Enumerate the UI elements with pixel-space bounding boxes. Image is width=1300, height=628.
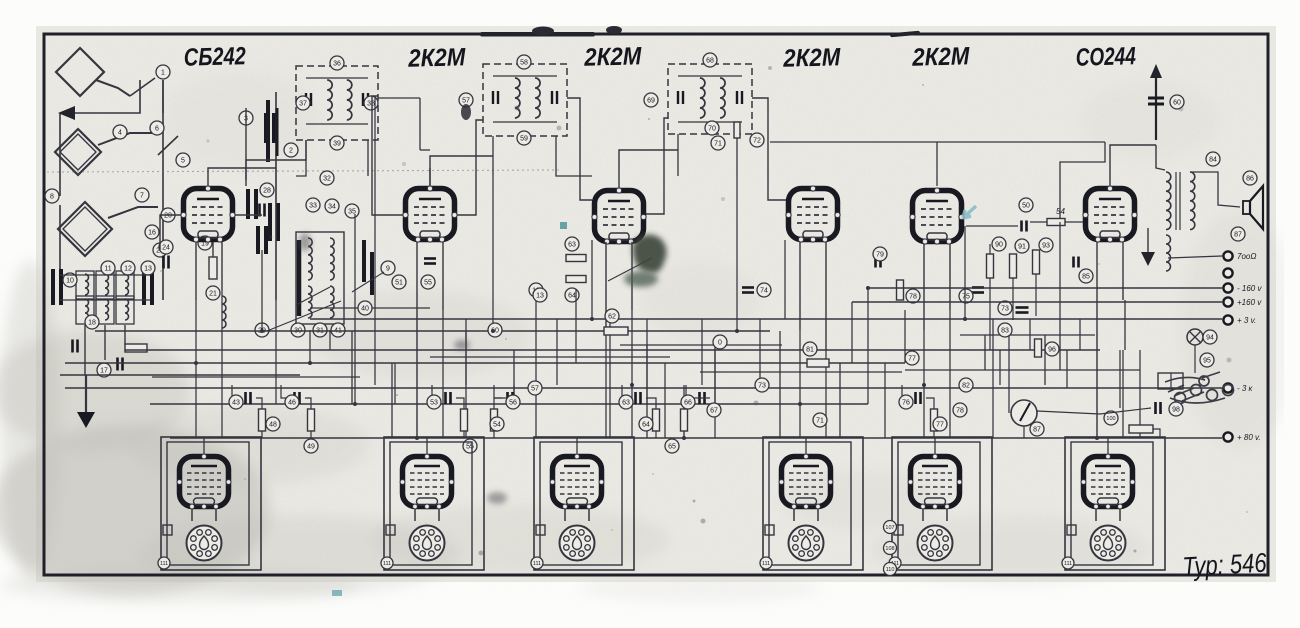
designator row 64 [639, 417, 653, 431]
resistor under tube1 [209, 257, 217, 279]
padder cap b [144, 269, 152, 305]
designator row 53 [427, 395, 441, 409]
ground arrow main [77, 412, 95, 428]
wire V5 tube-socket left [922, 509, 924, 521]
bottom unit V1 outer wiring rect [161, 437, 261, 570]
bottom tube envelope V2 [400, 454, 454, 509]
designator row 54 [490, 417, 504, 431]
designator row 49 [304, 439, 318, 453]
designator 57 [459, 93, 473, 107]
designator 7 [135, 188, 149, 202]
wire T1 right drop [367, 140, 369, 176]
designator 12 [121, 261, 135, 275]
svg-text:93: 93 [1042, 243, 1050, 250]
wire tube1 cath [212, 242, 214, 257]
designator 4 [113, 125, 127, 139]
svg-text:78: 78 [909, 294, 917, 301]
svg-text:7: 7 [140, 193, 144, 200]
wire bottom feed 3 [576, 438, 578, 454]
wire antenna L1 lead [96, 80, 130, 96]
wire left bus low [60, 374, 300, 376]
wire riser 38 [999, 350, 1001, 385]
wire riser 5 [309, 330, 311, 363]
wire V1 tube-socket right [215, 509, 217, 521]
speaker cone [1250, 186, 1263, 229]
chassis heavy bar A [297, 240, 302, 316]
wire riser 1 [195, 300, 197, 363]
wire heater drop 4 [631, 385, 633, 438]
wire riser 16 [556, 319, 558, 385]
bandswitch coil box 5 [96, 296, 114, 324]
grid resistor row 7 [931, 409, 938, 431]
svg-text:78: 78 [956, 408, 964, 415]
svg-text:87: 87 [1234, 232, 1242, 239]
designator 63 [565, 237, 579, 251]
terminal +80V [1223, 432, 1260, 442]
vacuum tube V5 2К2М [910, 188, 964, 244]
designator 8 [45, 189, 59, 203]
bottom unit V3 outer wiring rect [534, 437, 634, 570]
designator 36 [330, 56, 344, 70]
wire left border drop [59, 113, 61, 196]
bottom tube envelope V3 [550, 454, 604, 509]
cap left low [73, 340, 78, 353]
wire gridrow 6 [686, 385, 694, 398]
wire gridrow out 4 [494, 398, 518, 409]
cap 75 [972, 288, 984, 293]
teal speck 1 [560, 222, 567, 229]
designator 39 [330, 136, 344, 150]
grid cap row 6 [700, 392, 705, 404]
wire mid v10 [1044, 335, 1046, 385]
wire bandswitch h1 [60, 299, 150, 301]
wire riser 6 [329, 330, 331, 350]
designator row 78 [953, 403, 967, 417]
bottom unit V4 outer wiring rect [763, 437, 863, 570]
wire tube3 low2 [631, 242, 633, 310]
wire gridrow 1 [232, 385, 240, 398]
wire riser 41 [1079, 319, 1081, 350]
svg-text:51: 51 [395, 280, 403, 287]
svg-text:70: 70 [708, 126, 716, 133]
dark stain blob C [487, 492, 507, 504]
designator 29 [255, 323, 269, 337]
designator 96 [1045, 342, 1059, 356]
wire mid v1 [351, 331, 353, 404]
wire det out [1065, 221, 1083, 223]
wire riser 23 [683, 385, 685, 438]
designator 37 [296, 96, 310, 110]
svg-text:60: 60 [1173, 100, 1181, 107]
svg-text:0: 0 [718, 340, 722, 347]
designator row 67 [707, 403, 721, 417]
paper crease line [47, 170, 560, 172]
cap 85 [1074, 257, 1079, 268]
designator extra 73-762 [755, 378, 769, 392]
bandswitch coil box 1 [76, 271, 94, 299]
wire tube6 plate up [1110, 145, 1156, 186]
wire heater drop 10 [1122, 350, 1124, 438]
designator row 46 [285, 395, 299, 409]
wire tube6 low2 [1122, 242, 1124, 300]
svg-text:98: 98 [1172, 407, 1180, 414]
wire L3 lead [108, 207, 158, 218]
svg-text:64: 64 [642, 422, 650, 429]
wire brc v1 [992, 319, 994, 438]
designator 32 [320, 171, 334, 185]
designator 68 [703, 53, 717, 67]
designator 78 [906, 289, 920, 303]
wire ground col [85, 375, 87, 412]
wire box1 link [420, 149, 430, 151]
socket terminal square V1 [163, 525, 172, 535]
designator 110 [884, 563, 897, 576]
svg-text:79: 79 [876, 252, 884, 259]
wire left col [59, 205, 61, 300]
wire riser 42 [1096, 330, 1098, 438]
dark stain blob D [454, 340, 470, 350]
wire L2 lead [98, 133, 152, 145]
wire brc v3 [1066, 350, 1068, 388]
wire riser 26 [736, 176, 738, 331]
cap 27 [260, 204, 265, 217]
wire riser 2 [221, 290, 223, 350]
resistor 78 [897, 280, 904, 300]
wire riser 10 [416, 310, 418, 438]
bottom unit V6 outer wiring rect [1065, 437, 1165, 570]
svg-text:+ 80 v.: + 80 v. [1237, 433, 1261, 442]
svg-text:16: 16 [148, 230, 156, 237]
bandswitch coil box 4 [76, 296, 94, 324]
IF transformer T2 box [483, 64, 567, 136]
svg-text:36: 36 [333, 61, 341, 68]
designator 72 [750, 133, 764, 147]
grid cap row 2 [295, 392, 300, 404]
designator 5 [176, 153, 190, 167]
IF transformer T1 box [296, 66, 378, 140]
cap 18 [118, 358, 123, 371]
svg-text:Typ: 546: Typ: 546 [1182, 548, 1268, 582]
resistor 101 [1129, 425, 1153, 433]
designator extra 0-720 [713, 335, 727, 349]
designator 55 [421, 275, 435, 289]
svg-text:110: 110 [886, 567, 895, 573]
wire riser 34 [904, 310, 906, 363]
designator 33 [306, 198, 320, 212]
tube socket V3 [560, 526, 595, 561]
svg-text:34: 34 [328, 204, 336, 211]
designator 1 [156, 65, 170, 79]
designator row 55 [463, 439, 477, 453]
wire tube4 low2 [825, 242, 827, 350]
cap tube2 bias [424, 259, 436, 264]
pointer line B [296, 287, 330, 305]
svg-text:2К2М: 2К2М [782, 43, 842, 73]
designator 95 [1200, 353, 1214, 367]
wire bus +80V [170, 437, 1222, 439]
designator 64 [565, 288, 579, 302]
svg-text:53: 53 [430, 400, 438, 407]
designator 69 [644, 93, 658, 107]
designator 87r [1231, 227, 1245, 241]
bottom unit V1 inner wiring rect [167, 442, 249, 565]
wire T3 right drop [736, 138, 738, 176]
svg-text:54: 54 [493, 422, 501, 429]
svg-text:46: 46 [288, 400, 296, 407]
wire mid v8 [839, 363, 841, 438]
wire gridrow 2 [281, 385, 289, 398]
wire V1 tube-socket left [191, 509, 193, 521]
svg-text:86: 86 [1246, 176, 1254, 183]
svg-text:9: 9 [386, 266, 390, 273]
wire bottom feed 2 [426, 438, 428, 454]
svg-text:48: 48 [269, 422, 277, 429]
wire V6 tube-socket left [1095, 509, 1097, 521]
wire mid h1 [430, 356, 670, 358]
speaker coil [1243, 201, 1250, 214]
wire tube3 low1 [605, 242, 607, 330]
wire tube1 bottom pins [195, 242, 197, 300]
wire gridrow 5 [622, 385, 630, 398]
wire V4 tube-socket right [817, 509, 819, 521]
designator row 65 [665, 439, 679, 453]
wire gridrow down 5 [655, 431, 657, 438]
wire tube1 left pin [160, 215, 181, 250]
wire bus -160V [868, 287, 1222, 289]
ground arrow right [1141, 252, 1155, 266]
wire riser 20 [631, 310, 633, 385]
designator extra 83-1005 [998, 323, 1012, 337]
switch housing rect [1158, 373, 1183, 389]
wire heater drop 5 [799, 404, 801, 438]
pointer line A [267, 301, 341, 331]
designator 21 [206, 286, 220, 300]
wire tube2 cath leads2 [442, 242, 444, 310]
trimmer cap left b [270, 203, 278, 241]
grid resistor row 4 [491, 409, 498, 431]
wire V5 tube-socket right [946, 509, 948, 521]
resistor 54 [1047, 219, 1065, 226]
svg-text:38: 38 [367, 101, 375, 108]
svg-text:64: 64 [568, 293, 576, 300]
wire det col1b [989, 278, 991, 350]
wire bottom feed 5 [934, 438, 936, 454]
wire mid v11 [1059, 319, 1061, 370]
vacuum tube V1 СБ242 [181, 186, 235, 242]
wire riser 17 [575, 289, 577, 363]
wire mid h5 [620, 344, 782, 346]
wire gridrow out 2 [305, 398, 311, 409]
wire bandswitch h2 [60, 274, 150, 276]
svg-text:94: 94 [1206, 335, 1214, 342]
vacuum tube V4 2К2М [786, 186, 840, 242]
wire gridrow 7 [902, 385, 910, 398]
designator 93 [1039, 238, 1053, 252]
wire T2 left drop [492, 136, 494, 176]
wire riser 19 [609, 319, 611, 438]
wire switch arm 1 [130, 78, 155, 96]
designator 20 [161, 208, 175, 222]
resistor 90 [987, 254, 994, 278]
wire heater drop 11 [195, 363, 197, 438]
border blotch top3 [606, 26, 622, 34]
arrow left [58, 106, 75, 120]
designator 50 [1019, 198, 1033, 212]
svg-text:67: 67 [710, 408, 718, 415]
designator 71 [711, 136, 725, 150]
designator 26 [153, 243, 167, 257]
pointer line 9 [352, 272, 384, 292]
svg-text:4: 4 [118, 130, 122, 137]
wire bottom feed 1 [203, 438, 205, 454]
svg-text:40: 40 [361, 306, 369, 313]
wire T3 out to tube4 [752, 98, 786, 200]
designator 17 [97, 363, 111, 377]
switch cluster scribble [1165, 372, 1234, 404]
svg-text:108: 108 [885, 546, 894, 552]
designator 108 [884, 542, 897, 555]
osc coil D [330, 286, 334, 318]
border blotch top1 [480, 32, 595, 37]
wire gridrow down 4 [493, 431, 495, 438]
bandswitch coil 1 [85, 274, 89, 295]
wire heater drop 3 [605, 330, 607, 438]
wire gridrow out 5 [646, 398, 656, 409]
resistor mid81 [807, 359, 829, 367]
wire riser 29 [799, 330, 801, 404]
svg-text:+ 3 v.: + 3 v. [1237, 316, 1256, 325]
wire bandswitch v1 [84, 325, 86, 375]
IF transformer T3 box [668, 64, 752, 134]
bandswitch coil box 2 [96, 271, 114, 299]
designator 3 [239, 111, 253, 125]
bandswitch coil box 6 [116, 296, 134, 324]
resistor 62 [604, 327, 628, 335]
osc coil C [308, 286, 312, 318]
socket designator 111 V5 [889, 557, 901, 569]
wire bus +160V [852, 301, 1222, 303]
designator 86 [1243, 171, 1257, 185]
terminal 700ohm [1223, 251, 1256, 261]
wire det col3b [1035, 274, 1037, 316]
wire antenna L1 to switch [162, 80, 164, 113]
bottom unit V5 inner wiring rect [898, 442, 980, 565]
svg-text:71: 71 [714, 141, 722, 148]
wire riser 25 [714, 350, 716, 438]
wire riser 12 [465, 319, 467, 438]
svg-text:84: 84 [1209, 157, 1217, 164]
trimmer cap left a [248, 189, 256, 219]
wire bottom feed 4 [805, 438, 807, 454]
svg-text:2К2М: 2К2М [407, 43, 467, 73]
wire bandswitch v3 [124, 325, 126, 345]
svg-text:СБ242: СБ242 [183, 42, 246, 72]
coil 22 [222, 296, 226, 328]
wire riser 8 [374, 96, 376, 385]
wire tube1 top pin [208, 168, 276, 186]
wire mid h6 [310, 307, 430, 309]
designator 81 [803, 342, 817, 356]
wire top bus tube2 [372, 96, 403, 215]
chassis heavy bar C [276, 108, 279, 156]
designator 41 [331, 323, 345, 337]
wire sec to speaker top [1190, 172, 1240, 207]
svg-text:74: 74 [760, 288, 768, 295]
antenna loop L3 [58, 202, 112, 256]
wire gridrow down 3 [463, 431, 465, 438]
wire heater drop 12 [221, 350, 223, 438]
svg-text:77: 77 [936, 422, 944, 429]
wire riser 21 [646, 319, 648, 404]
wire top tube1 grid [245, 108, 247, 180]
wire tube4 low1 [799, 242, 801, 330]
designator 59 [517, 131, 531, 145]
wire gridrow out 6 [684, 398, 710, 409]
wire box1 out [378, 97, 420, 99]
scan dirt specks [160, 66, 1248, 556]
designator 107 [884, 521, 897, 534]
bandswitch coil 5 [105, 299, 109, 320]
svg-text:69: 69 [647, 98, 655, 105]
vacuum tube V6 СО244 [1083, 186, 1137, 242]
wire bus C [65, 362, 905, 364]
svg-text:11: 11 [104, 266, 111, 273]
svg-text:17: 17 [100, 368, 108, 375]
wire box1 out drop [419, 98, 421, 150]
svg-text:50: 50 [1022, 203, 1030, 210]
tube socket V1 [187, 526, 222, 561]
bottom tube envelope V5 [908, 454, 962, 509]
wire mid h4 [905, 369, 1140, 371]
border blotch top2 [532, 27, 554, 36]
socket terminal square V4 [765, 525, 774, 535]
wire riser 35 [923, 330, 925, 385]
designator 87 [1030, 422, 1044, 436]
svg-text:6: 6 [155, 126, 159, 133]
designator 40 [358, 301, 372, 315]
designator extra 13-540 [533, 288, 547, 302]
svg-text:73: 73 [758, 383, 766, 390]
bottom tube envelope V6 [1081, 454, 1135, 509]
svg-text:49: 49 [307, 444, 315, 451]
wire bus E [150, 403, 868, 405]
designator 10 [63, 273, 77, 287]
resistor 93 [1033, 250, 1040, 274]
svg-text:18: 18 [88, 320, 96, 327]
wire tube1 right pin [235, 214, 262, 216]
wire tube3 plate to T3 [619, 150, 678, 188]
designator 91 [1015, 239, 1029, 253]
wire mid v4 [513, 350, 515, 404]
output transformer secondary [1190, 172, 1195, 230]
wire riser 18 [591, 240, 593, 319]
designator 75 [959, 289, 973, 303]
svg-text:28: 28 [263, 188, 271, 195]
wire riser 28 [784, 240, 786, 319]
wire lamp drop [1194, 345, 1196, 373]
wire riser 13 [492, 176, 494, 331]
wire bus D [65, 387, 1222, 389]
bottom unit V6 inner wiring rect [1071, 442, 1153, 565]
designator row 77 [933, 417, 947, 431]
designator 13 [141, 261, 155, 275]
designator 34 [325, 199, 339, 213]
vacuum tube V2 2К2М [403, 186, 457, 242]
svg-text:1: 1 [161, 70, 165, 77]
socket designator 111 V3 [531, 557, 543, 569]
wire tube2 top pin [429, 168, 431, 186]
transformer core lines [1176, 172, 1180, 230]
